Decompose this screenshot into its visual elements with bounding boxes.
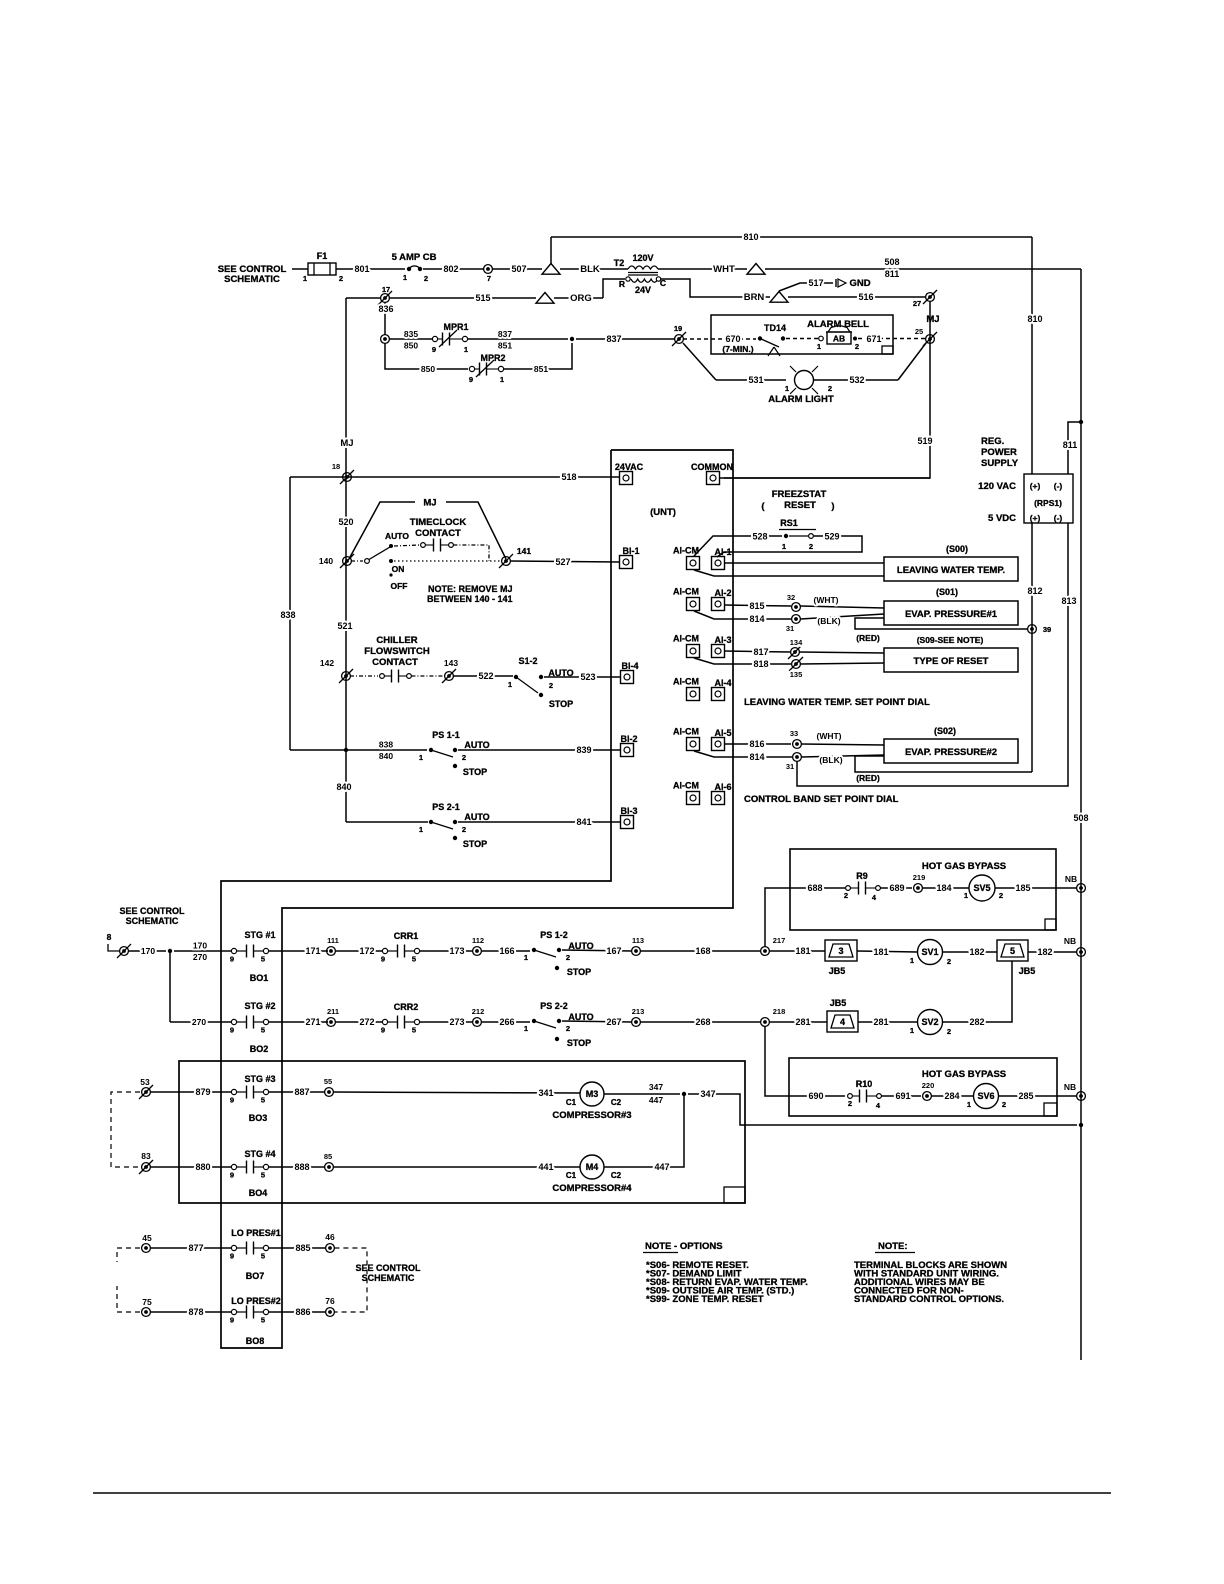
terminal 211: [327, 1018, 336, 1027]
svg-text:C1: C1: [566, 1171, 577, 1180]
wire 166: [481, 950, 530, 952]
svg-text:817: 817: [753, 647, 768, 657]
svg-text:520: 520: [338, 517, 353, 527]
svg-text:AI-CM: AI-CM: [673, 546, 699, 556]
svg-text:284: 284: [944, 1091, 959, 1101]
terminal 135: [792, 660, 801, 669]
wire 270 row2: [170, 1021, 231, 1023]
wire 171: [269, 950, 328, 952]
svg-text:341: 341: [538, 1088, 553, 1098]
wire 281: [769, 1021, 827, 1023]
svg-text:171: 171: [305, 946, 320, 956]
svg-text:140: 140: [319, 556, 333, 566]
svg-text:19: 19: [674, 324, 682, 333]
svg-text:213: 213: [632, 1007, 645, 1016]
svg-text:841: 841: [576, 817, 591, 827]
svg-text:184: 184: [936, 883, 951, 893]
svg-text:5: 5: [412, 1026, 416, 1035]
svg-text:522: 522: [478, 671, 493, 681]
terminal BI-4: [621, 671, 634, 684]
svg-text:270: 270: [192, 1017, 206, 1027]
hot gas bypass box 2: [789, 1058, 1057, 1116]
wire 282 up to JB5 connector 5: [943, 961, 1013, 1022]
svg-text:8: 8: [107, 932, 112, 942]
svg-text:AI-CM: AI-CM: [673, 677, 699, 687]
svg-text:879: 879: [195, 1087, 210, 1097]
wire 887: [269, 1091, 325, 1093]
svg-text:(S02): (S02): [934, 726, 956, 736]
wire 172: [335, 950, 382, 952]
wire 813 from -5VDC: [797, 523, 1068, 786]
svg-text:172: 172: [359, 946, 374, 956]
svg-text:TD14: TD14: [764, 323, 786, 333]
wire MJ vertical left column: [345, 298, 347, 750]
terminal AI-2: [712, 598, 725, 611]
svg-text:877: 877: [188, 1243, 203, 1253]
wire feed from 217 up into box: [765, 888, 845, 947]
svg-text:519: 519: [917, 436, 932, 446]
wire 170 270 to STG1: [174, 950, 231, 952]
terminal 76: [326, 1308, 335, 1317]
svg-text:AB: AB: [833, 334, 845, 344]
svg-text:TYPE OF RESET: TYPE OF RESET: [914, 656, 989, 667]
wire 284 to SV6: [931, 1095, 973, 1097]
terminal 53: [142, 1088, 151, 1097]
svg-text:1: 1: [303, 274, 307, 283]
svg-text:670: 670: [725, 334, 740, 344]
svg-text:528: 528: [752, 532, 767, 542]
wire 814 from AI-CM row2: [694, 611, 791, 619]
svg-text:T2: T2: [614, 258, 625, 268]
alarm light lamp: [795, 371, 814, 390]
terminal 8 lead: [108, 944, 120, 951]
svg-text:5: 5: [412, 955, 416, 964]
flowswitch contact: [350, 675, 378, 677]
svg-text:CONTACT: CONTACT: [415, 528, 461, 539]
svg-text:518: 518: [561, 472, 576, 482]
svg-text:9: 9: [469, 375, 473, 384]
svg-text:111: 111: [327, 936, 339, 945]
svg-text:AI-CM: AI-CM: [673, 634, 699, 644]
svg-text:STOP: STOP: [549, 699, 573, 709]
wire 168: [640, 950, 760, 952]
svg-text:M4: M4: [586, 1162, 599, 1172]
wire to PS1-1: [290, 749, 427, 751]
svg-text:2: 2: [844, 891, 848, 900]
svg-text:LEAVING WATER TEMP.: LEAVING WATER TEMP.: [897, 565, 1005, 576]
wire 839 to BI-2: [458, 749, 621, 751]
svg-text:167: 167: [606, 946, 621, 956]
svg-text:134: 134: [790, 638, 803, 647]
bottom rule: [93, 1492, 1111, 1494]
terminal 219: [914, 884, 923, 893]
svg-text:9: 9: [230, 955, 234, 964]
svg-text:33: 33: [790, 729, 798, 738]
wire 508 / 811 top run: [765, 268, 1081, 270]
wire 814 from AI-CM row5: [694, 751, 792, 757]
svg-text:FREEZSTAT: FREEZSTAT: [772, 489, 827, 500]
svg-text:815: 815: [749, 601, 764, 611]
wire 516: [788, 296, 926, 298]
svg-text:HOT GAS BYPASS: HOT GAS BYPASS: [922, 861, 1006, 872]
svg-text:27: 27: [913, 299, 921, 308]
wire 880: [150, 1166, 231, 1168]
svg-text:113: 113: [632, 936, 644, 945]
svg-text:521: 521: [337, 621, 352, 631]
wire 267: [562, 1021, 632, 1022]
svg-text:1: 1: [419, 753, 423, 762]
wire 532 to terminal 25: [814, 379, 898, 381]
svg-text:2: 2: [1002, 1100, 1006, 1109]
wire 181 to SV1: [857, 951, 917, 952]
svg-text:516: 516: [858, 292, 873, 302]
solenoid valve SV1: [918, 940, 943, 965]
wire BLK to evap pressure 2: [801, 755, 884, 757]
svg-text:1: 1: [817, 342, 821, 351]
svg-text:(RED): (RED): [856, 633, 880, 643]
terminal NB (hot gas bypass 2): [1077, 1092, 1086, 1101]
svg-text:SUPPLY: SUPPLY: [981, 458, 1019, 469]
svg-text:LO PRES#2: LO PRES#2: [231, 1296, 281, 1306]
wire 812 from +5VDC: [1031, 523, 1033, 772]
svg-text:C1: C1: [566, 1098, 577, 1107]
terminal 8: [120, 947, 129, 956]
wire 528 from AI-CM: [694, 536, 782, 556]
svg-text:STG #2: STG #2: [244, 1001, 275, 1011]
terminal BI-3: [621, 816, 634, 829]
svg-text:270: 270: [193, 952, 207, 962]
svg-text:STOP: STOP: [463, 839, 487, 849]
svg-text:272: 272: [359, 1017, 374, 1027]
svg-text:273: 273: [449, 1017, 464, 1027]
svg-text:1: 1: [910, 956, 914, 965]
svg-text:PS 2-1: PS 2-1: [432, 802, 460, 812]
terminal 25: [926, 335, 935, 344]
wire 815 from AI-2: [725, 605, 792, 606]
wire 523 to BI-4: [544, 676, 621, 678]
svg-text:9: 9: [230, 1252, 234, 1261]
wire TD14 to bell: [786, 338, 818, 340]
solenoid valve SV5: [969, 875, 995, 901]
terminal 31: [792, 615, 801, 624]
svg-text:PS 1-1: PS 1-1: [432, 730, 460, 740]
svg-text:AI-6: AI-6: [714, 782, 731, 792]
svg-text:5: 5: [261, 1316, 265, 1325]
svg-text:688: 688: [807, 883, 822, 893]
svg-text:(+): (+): [1030, 513, 1041, 523]
terminal 45 lead dashed: [117, 1248, 140, 1262]
svg-text:AI-1: AI-1: [714, 547, 731, 557]
terminal AI-1: [712, 557, 725, 570]
svg-text:689: 689: [889, 883, 904, 893]
wire to alarm light: [683, 343, 716, 380]
wire 879: [150, 1091, 231, 1093]
svg-text:185: 185: [1015, 883, 1030, 893]
wire BLK to evap pressure 1: [800, 614, 884, 619]
wire 810 riser and top run: [550, 237, 552, 264]
svg-text:887: 887: [294, 1087, 309, 1097]
junction on 508 bus: [1079, 420, 1083, 424]
svg-text:(-): (-): [1054, 481, 1063, 491]
svg-text:120V: 120V: [632, 253, 653, 263]
wire 817 from AI-3: [725, 651, 791, 652]
svg-text:9: 9: [230, 1316, 234, 1325]
wire 811 into power supply: [1068, 422, 1081, 474]
wire 850 to MPR2: [418, 368, 468, 370]
svg-text:9: 9: [381, 955, 385, 964]
svg-text:NOTE: REMOVE MJ: NOTE: REMOVE MJ: [428, 584, 513, 594]
svg-text:24V: 24V: [635, 285, 651, 295]
terminal AI-6: [712, 792, 725, 805]
wire 886: [269, 1311, 326, 1313]
svg-text:818: 818: [753, 659, 768, 669]
svg-text:142: 142: [320, 658, 334, 668]
compressor contactor M3: [580, 1082, 604, 1106]
wire 816 from AI-5: [725, 743, 792, 745]
svg-text:HOT GAS BYPASS: HOT GAS BYPASS: [922, 1069, 1006, 1080]
svg-text:441: 441: [538, 1162, 553, 1172]
terminal 39 on 812: [1028, 625, 1037, 634]
svg-text:9: 9: [230, 1026, 234, 1035]
svg-text:(BLK): (BLK): [819, 755, 842, 765]
terminal AI-CM (AI-2 row): [687, 598, 700, 611]
svg-text:2: 2: [339, 274, 343, 283]
svg-text:R9: R9: [856, 871, 868, 881]
terminal 143: [445, 672, 454, 681]
terminal AI-CM (AI-5 row): [687, 738, 700, 751]
svg-text:BO2: BO2: [250, 1044, 269, 1054]
wire feed from 218 down into box: [765, 1026, 845, 1096]
svg-text:447: 447: [654, 1162, 669, 1172]
svg-text:515: 515: [475, 293, 490, 303]
wire AI-1 to leaving water temp sensor: [725, 562, 885, 564]
wire 167: [562, 950, 632, 951]
compressor box outline: [179, 1061, 745, 1203]
terminal AI-CM (AI-4 row): [687, 688, 700, 701]
wire MPR2 branch down: [385, 343, 418, 369]
MJ bracket over timeclock contact: [349, 502, 415, 559]
svg-text:(S00): (S00): [946, 544, 968, 554]
svg-text:508: 508: [1073, 813, 1088, 823]
connector triangle (WHT): [747, 264, 765, 275]
svg-text:5 VDC: 5 VDC: [988, 513, 1016, 524]
svg-text:AI-5: AI-5: [714, 728, 731, 738]
terminal 18: [343, 473, 352, 482]
svg-text:46: 46: [325, 1232, 335, 1242]
wire 268: [640, 1021, 760, 1023]
terminal AI-3: [712, 645, 725, 658]
junction terminal 217: [761, 947, 770, 956]
svg-text:(WHT): (WHT): [813, 595, 838, 605]
svg-text:1: 1: [508, 680, 512, 689]
svg-text:*S99- ZONE TEMP. RESET: *S99- ZONE TEMP. RESET: [646, 1294, 764, 1305]
wire to type of reset: [799, 652, 884, 653]
svg-text:(-): (-): [1054, 513, 1063, 523]
svg-text:811: 811: [885, 269, 900, 279]
svg-text:JB5: JB5: [829, 966, 846, 976]
svg-text:1: 1: [419, 825, 423, 834]
terminal 140: [343, 557, 352, 566]
terminal 220: [923, 1092, 932, 1101]
svg-text:(S09-SEE NOTE): (S09-SEE NOTE): [917, 635, 984, 645]
svg-text:BLK: BLK: [580, 264, 600, 275]
wire 173: [420, 950, 473, 952]
terminal 83 lead: [142, 1163, 151, 1172]
svg-text:691: 691: [895, 1091, 910, 1101]
svg-text:4: 4: [840, 1017, 845, 1027]
svg-text:2: 2: [947, 1027, 951, 1036]
svg-text:18: 18: [332, 462, 340, 471]
terminal 141: [502, 557, 511, 566]
svg-text:182: 182: [1037, 947, 1052, 957]
svg-text:76: 76: [325, 1296, 335, 1306]
svg-text:120 VAC: 120 VAC: [978, 481, 1016, 492]
wire 670 dashed: [683, 338, 756, 340]
svg-text:(WHT): (WHT): [816, 731, 841, 741]
svg-text:BI-3: BI-3: [620, 806, 637, 816]
svg-text:851: 851: [534, 364, 548, 374]
wire 518 to 24VAC: [290, 476, 620, 478]
svg-text:CRR2: CRR2: [394, 1002, 419, 1012]
svg-text:F1: F1: [317, 251, 328, 261]
transformer T2 120V/24V: [628, 266, 658, 269]
svg-text:(7-MIN.): (7-MIN.): [722, 344, 753, 354]
svg-text:268: 268: [695, 1017, 710, 1027]
wire 181: [769, 950, 825, 952]
svg-text:(+): (+): [1030, 481, 1041, 491]
svg-text:2: 2: [549, 681, 553, 690]
svg-text:FLOWSWITCH: FLOWSWITCH: [364, 646, 430, 657]
svg-text:838: 838: [280, 610, 295, 620]
svg-text:BO4: BO4: [249, 1188, 268, 1198]
wire down to row 2: [169, 951, 171, 1022]
svg-text:2: 2: [809, 542, 813, 551]
terminal 213: [632, 1018, 641, 1027]
wire WHT to evap pressure 2: [801, 744, 884, 745]
junction M3/M4 outputs: [682, 1092, 686, 1096]
svg-text:5: 5: [261, 955, 265, 964]
terminal AI-CM (AI-6 row): [687, 792, 700, 805]
wire ORG to transformer R: [554, 297, 603, 299]
alarm bell box: [711, 315, 893, 354]
svg-text:ON: ON: [392, 564, 405, 574]
svg-text:17: 17: [382, 285, 390, 294]
relay contact MPR2 (NC): [469, 366, 474, 371]
svg-text:2: 2: [947, 957, 951, 966]
svg-text:R: R: [619, 279, 625, 289]
terminal AI-CM (AI-1 row): [687, 557, 700, 570]
svg-text:527: 527: [555, 557, 570, 567]
wire 885: [269, 1247, 326, 1249]
svg-text:SV1: SV1: [921, 947, 938, 957]
terminal 24VAC: [620, 472, 633, 485]
svg-text:COMMON: COMMON: [691, 462, 733, 472]
wire 266: [481, 1021, 530, 1023]
terminal 85: [325, 1163, 334, 1172]
wire 285 to NB: [999, 1095, 1077, 1097]
svg-text:2: 2: [999, 891, 1003, 900]
svg-text:BI-1: BI-1: [622, 546, 639, 556]
svg-text:31: 31: [786, 762, 794, 771]
svg-text:BETWEEN 140 - 141: BETWEEN 140 - 141: [427, 594, 513, 604]
svg-text:M3: M3: [586, 1089, 599, 1099]
terminal 32: [792, 603, 801, 612]
svg-text:112: 112: [472, 936, 484, 945]
svg-text:531: 531: [748, 375, 763, 385]
wire 182 to NB: [1028, 951, 1077, 953]
wire 838 left branch: [289, 477, 291, 750]
svg-text:1: 1: [524, 1024, 528, 1033]
svg-text:347: 347: [649, 1082, 663, 1092]
wire 689: [880, 887, 912, 889]
svg-text:5: 5: [261, 1096, 265, 1105]
wire MJ vertical / 519 to COMMON: [724, 301, 930, 478]
hot gas bypass box 1: [790, 849, 1056, 930]
svg-text:878: 878: [188, 1307, 203, 1317]
svg-text:JB5: JB5: [830, 998, 847, 1008]
svg-text:181: 181: [873, 947, 888, 957]
svg-text:523: 523: [580, 672, 595, 682]
svg-text:NOTE - OPTIONS: NOTE - OPTIONS: [645, 1241, 723, 1252]
svg-text:32: 32: [787, 593, 795, 602]
svg-text:2: 2: [462, 753, 466, 762]
wire 507: [492, 268, 542, 270]
svg-text:REG.: REG.: [981, 436, 1004, 447]
svg-text:(UNT): (UNT): [650, 507, 676, 518]
svg-text:24VAC: 24VAC: [615, 462, 644, 472]
svg-text:170: 170: [141, 946, 155, 956]
wire 170: [128, 950, 166, 952]
selector switch AUTO ON OFF: [351, 560, 363, 562]
svg-text:266: 266: [499, 1017, 514, 1027]
svg-text:219: 219: [913, 873, 926, 882]
svg-text:COMPRESSOR#4: COMPRESSOR#4: [552, 1183, 632, 1194]
svg-text:814: 814: [749, 752, 764, 762]
svg-text:9: 9: [432, 345, 436, 354]
svg-text:LEAVING WATER TEMP. SET POINT: LEAVING WATER TEMP. SET POINT DIAL: [744, 697, 930, 708]
svg-text:810: 810: [1027, 314, 1042, 324]
svg-text:NB: NB: [1065, 874, 1077, 884]
svg-text:5: 5: [261, 1171, 265, 1180]
svg-text:850: 850: [421, 364, 435, 374]
svg-text:SCHEMATIC: SCHEMATIC: [126, 916, 179, 926]
svg-text:C2: C2: [611, 1171, 622, 1180]
svg-text:1: 1: [967, 1100, 971, 1109]
solenoid valve SV6: [974, 1084, 999, 1109]
terminal NB (SV1 row): [1077, 948, 1086, 957]
svg-text:AUTO: AUTO: [385, 531, 409, 541]
terminal 17: [381, 294, 390, 303]
svg-text:SEE CONTROL: SEE CONTROL: [119, 906, 185, 916]
svg-text:PS 2-2: PS 2-2: [540, 1001, 568, 1011]
solenoid valve SV2: [918, 1010, 943, 1035]
svg-text:9: 9: [230, 1171, 234, 1180]
wire 184 to SV5: [922, 887, 969, 889]
svg-text:EVAP. PRESSURE#1: EVAP. PRESSURE#1: [905, 609, 998, 620]
compressor contactor M4: [580, 1155, 604, 1179]
terminal 212: [473, 1018, 482, 1027]
svg-text:AI-CM: AI-CM: [673, 587, 699, 597]
svg-text:1: 1: [500, 375, 504, 384]
timeclock contact: [394, 545, 420, 546]
svg-text:STG #4: STG #4: [244, 1149, 275, 1159]
junction on 508 bus (347): [1079, 1123, 1083, 1127]
terminal 112: [473, 947, 482, 956]
svg-text:9: 9: [230, 1096, 234, 1105]
svg-text:(RED): (RED): [856, 773, 880, 783]
terminal 55: [325, 1088, 334, 1097]
wire 272: [335, 1021, 382, 1023]
